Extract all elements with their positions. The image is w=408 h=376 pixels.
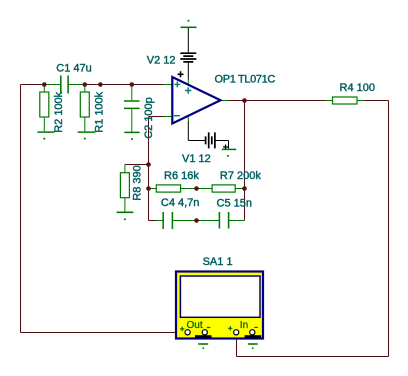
junction: R1 top node xyxy=(83,82,88,87)
wire: right vertical rail xyxy=(388,101,390,357)
wire: R1 pin stubs xyxy=(84,85,86,132)
svg-text:R2 100k: R2 100k xyxy=(53,91,65,132)
wire: op-amp V- pin stub xyxy=(187,116,189,123)
ground below R8 xyxy=(117,211,134,213)
plus mark at In xyxy=(228,326,232,330)
SA1 left foot tab xyxy=(195,335,212,338)
svg-text:R7 200k: R7 200k xyxy=(220,170,261,182)
ground below R2 xyxy=(37,131,54,133)
svg-text:R8 390: R8 390 xyxy=(131,165,143,200)
wire: op-amp + input pin stub xyxy=(164,84,172,86)
battery V1 long plates xyxy=(209,132,215,148)
wire: C4 C5 bottom rail pin leads xyxy=(156,220,245,222)
svg-text:R6 16k: R6 16k xyxy=(164,170,199,182)
wire: op-amp V+ pin stub xyxy=(187,80,189,86)
plus mark at op-amp + input xyxy=(174,81,180,87)
resistor R1 xyxy=(80,92,89,117)
minus mark at In xyxy=(254,326,258,328)
capacitor C1 xyxy=(61,76,68,94)
plus polarity mark at battery V1 xyxy=(223,145,228,150)
wire: C1 left pin lead xyxy=(44,84,61,86)
resistor R4 xyxy=(333,97,358,104)
plus mark at Out xyxy=(180,327,184,331)
junction: node A at R6 xyxy=(146,186,151,191)
svg-text:C4 4,7n: C4 4,7n xyxy=(161,197,200,209)
wire: top-left horizontal segment from corner to node of R2 xyxy=(21,84,45,86)
junction: R7 right at output net xyxy=(242,186,247,191)
svg-text:In: In xyxy=(240,320,248,331)
svg-text:V1 12: V1 12 xyxy=(182,153,211,165)
svg-text:Out: Out xyxy=(187,320,203,331)
SA1 In+ terminal xyxy=(234,330,239,335)
svg-text:V2 12: V2 12 xyxy=(147,55,176,67)
wire: top input rail to op-amp non-inverting input xyxy=(85,84,164,86)
junction: mid rail node xyxy=(98,82,103,87)
wire: output node vertical down to feedback ladder xyxy=(244,101,246,221)
resistor R8 xyxy=(120,173,129,198)
minus mark at op-amp - input xyxy=(174,115,180,117)
svg-text:R1 100k: R1 100k xyxy=(94,91,106,132)
capacitor C4 xyxy=(163,212,172,229)
SA1 In- terminal xyxy=(250,330,255,335)
svg-text:SA1 1: SA1 1 xyxy=(203,256,233,268)
wire: R8 pin stubs xyxy=(124,165,126,212)
ground below SA1 left foot xyxy=(198,343,208,345)
SA1 right foot tab xyxy=(245,335,262,338)
ground at battery V1 xyxy=(222,148,236,150)
wire: left vertical rail down to SA1 Out xyxy=(20,85,22,333)
signal analyzer SA1 body xyxy=(176,272,263,339)
junction: node A with R8 branch xyxy=(146,162,151,167)
SA1 Out- terminal xyxy=(202,330,207,335)
resistor R6 xyxy=(156,185,180,192)
minus mark at Out xyxy=(207,327,211,329)
wire: V2 battery to op-amp V+ pin xyxy=(187,63,189,80)
junction: output node xyxy=(242,98,247,103)
ground below SA1 right foot xyxy=(248,343,258,345)
junction: node B between R6 and R7 xyxy=(194,186,199,191)
wire: inverting input horizontal segment xyxy=(149,116,165,118)
junction: R2 top node xyxy=(42,82,47,87)
SA1 Out+ terminal xyxy=(185,330,190,335)
wire: op-amp output to R4 xyxy=(227,100,326,102)
wire: R4 right lead to right rail xyxy=(364,100,389,102)
capacitor C5 xyxy=(219,212,228,229)
ground below C2 xyxy=(124,131,139,133)
wire: op-amp - input pin stub xyxy=(164,116,172,118)
wire: op-amp output pin stub xyxy=(221,100,228,102)
ground above V2 (inverted) xyxy=(181,26,197,28)
wire: SA1 In+ vertical drop xyxy=(236,332,238,356)
plus mark inside op-amp xyxy=(185,87,191,93)
battery V2 short plates xyxy=(183,56,193,62)
wire: op-amp V- to battery V1 and to ground xyxy=(188,122,228,149)
wire: R4 left pin lead xyxy=(326,100,332,102)
svg-text:OP1 TL071C: OP1 TL071C xyxy=(215,74,276,86)
wire: C2 pin stubs xyxy=(131,85,133,132)
battery V2 long plates xyxy=(180,53,196,59)
wire: R4 right pin lead xyxy=(357,100,364,102)
junction: C2 top node xyxy=(130,82,135,87)
wire: node A to C4 left plate xyxy=(149,220,157,222)
SA1 screen xyxy=(180,276,260,317)
svg-text:R4 100: R4 100 xyxy=(340,82,375,94)
svg-text:C5 15n: C5 15n xyxy=(217,198,252,210)
wire: node A vertical (inverting input to feedback ladder) xyxy=(148,117,150,221)
wire: ground to V2 battery xyxy=(187,28,189,53)
svg-text:C2 100p: C2 100p xyxy=(143,97,155,139)
wire: R6 R7 feedback rail with pin leads xyxy=(149,188,245,190)
plus polarity mark at op-amp V+ xyxy=(178,71,184,77)
wire: C1 right pin lead xyxy=(68,84,85,86)
wire: bottom horizontal to SA1 In xyxy=(237,356,389,358)
resistor R7 xyxy=(212,185,235,192)
wire: bottom-left horizontal to SA1 Out+ terminal xyxy=(21,332,187,334)
ground below R1 xyxy=(78,131,96,133)
capacitor C2 xyxy=(124,101,140,108)
wire: R2 pin stubs xyxy=(43,85,45,132)
resistor R2 xyxy=(40,92,49,117)
junction: node B at C4 C5 rail xyxy=(194,218,199,223)
wire: R8 branch horizontal xyxy=(125,164,149,166)
op-amp OP1 triangle xyxy=(172,77,220,124)
svg-text:C1 47u: C1 47u xyxy=(56,62,91,74)
battery V1 short plates xyxy=(206,136,212,144)
